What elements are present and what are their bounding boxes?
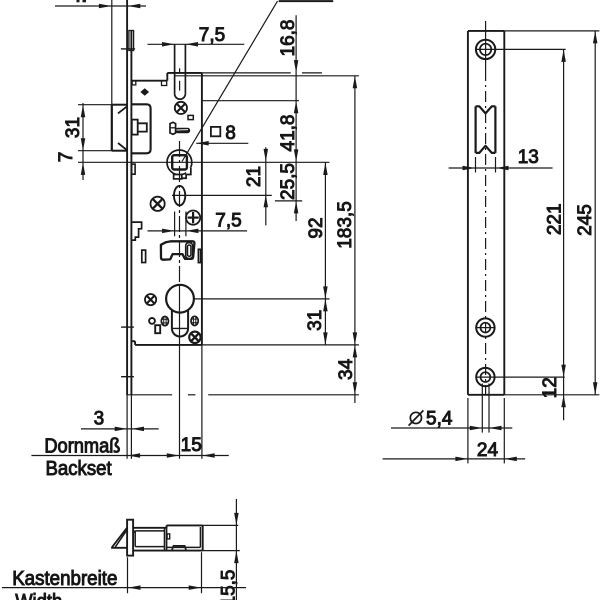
svg-text:183,5: 183,5 [335,201,356,249]
small rect hole [155,325,160,333]
svg-text:Width: Width [15,591,62,600]
latch guide slot [174,44,176,94]
svg-text:34: 34 [336,358,357,380]
lower screw hole [476,368,494,386]
middle screw hole [476,318,494,336]
screw B [151,197,165,211]
plate bottom edge [468,394,504,396]
small square hole [188,115,193,119]
faceplate screw tick lower [121,376,134,378]
case top reference extension [202,72,291,74]
case bottom reference extension [202,344,359,346]
tiny spring rect [167,534,170,539]
crosshatched oval left [161,317,168,326]
callout underline (cut off at top) [279,0,334,2]
faceplate screw tick top [121,48,135,50]
hook slot ring [186,243,193,259]
dimension 15,5 [235,499,237,600]
plate right edge [503,31,505,395]
svg-text:12: 12 [540,377,561,398]
inner wall bottom [135,546,164,548]
svg-text:Kastenbreite: Kastenbreite [12,568,117,590]
dimension chain 16,8 / 41,8 / 25,5 [295,15,297,221]
diamond marker [140,88,149,95]
svg-text:21: 21 [244,166,265,187]
diameter symbol [410,412,421,423]
svg-text:Dornmaß: Dornmaß [44,435,120,457]
screw D [145,294,156,305]
dimension 7,5 upper [148,43,245,45]
dimension 21 line [265,147,267,225]
dimension 7,5 lower extensions [174,212,176,237]
svg-text:245: 245 [575,204,596,236]
case bottom edge [135,344,202,346]
dimension 7,5 lower [148,230,248,232]
svg-text:7,5: 7,5 [215,211,241,232]
square-8 label [211,127,220,136]
svg-text:7: 7 [56,152,77,163]
main vertical centerline [179,141,181,286]
latch tip bevel [112,528,127,548]
svg-text:41,8: 41,8 [278,115,299,152]
latch top reference [78,104,112,106]
svg-text:31: 31 [63,117,84,138]
case right extension below [201,345,203,459]
follower axis reference [78,161,330,163]
Dornmass dimension line [31,455,228,457]
case right edge [201,73,203,345]
faceplate back edge [130,31,132,396]
small rect on faceplate back [132,164,136,174]
case top step [166,73,168,81]
oval hole [174,186,185,206]
faceplate back top detail [129,31,134,51]
cylinder profile sides [171,310,173,329]
dimension 3 [81,428,159,430]
svg-text:5,4: 5,4 [426,409,453,430]
svg-text:8: 8 [225,123,236,144]
hook cam plate [161,241,195,259]
follower [167,150,192,175]
latch seat reference line [175,75,359,77]
bolt symbol [170,122,176,134]
svg-text:31: 31 [305,310,326,331]
svg-text:15: 15 [181,435,202,456]
case top edges [133,527,167,529]
reference for 25,5 [275,200,302,202]
inner wall top [133,531,164,534]
svg-text:Backset: Backset [46,458,113,480]
dimension 183,5 / 34 line [354,76,356,403]
cylinder hole circle [166,285,194,313]
latch bottom reference [78,150,112,152]
crosshatched oval right [191,316,198,325]
faceplate edge-on [127,520,133,556]
tab bump [172,546,186,551]
faceplate extension lines below [126,395,128,459]
top screw hole [476,40,495,59]
faceplate front edge [126,0,128,395]
screw C [186,211,200,225]
dimension 92 / 31 line [324,163,326,345]
cylinder axis reference [194,298,330,300]
case right edge (section) [202,525,204,550]
svg-text:13: 13 [518,147,539,168]
case top notch square B [162,81,167,86]
faceplate screw tick middle [121,326,134,328]
divider double wall [164,528,166,551]
screw A [175,102,187,114]
case top notch square A [132,81,136,85]
svg-text:221: 221 [544,203,565,235]
small rect left [142,250,146,262]
oval axis reference [172,194,272,196]
dimension 24 extensions [467,398,469,463]
right inner wall [199,527,201,547]
bottom reference line segments [127,394,172,396]
latch tip extension line [111,0,113,105]
slot bottom reference extension [202,100,299,102]
plate left edge [467,31,469,395]
slot centerline dashes [179,68,181,72]
case bottom edge (section) [133,550,203,552]
case top edge left (lower level) [132,80,168,82]
Kastenbreite extensions [127,557,129,593]
case top edge [167,72,202,74]
top cut-off digit stubs [77,0,80,2]
svg-text:15,5: 15,5 [218,570,239,600]
12 reference from lower screw [476,376,565,378]
plate centerline [485,21,487,70]
follower square hole [172,155,187,169]
dimension 245 line [594,31,596,395]
svg-text:92: 92 [306,217,327,238]
roller catch [475,106,477,153]
svg-text:16,8: 16,8 [278,20,299,57]
svg-text:25,5: 25,5 [278,163,299,200]
small rect at case right [198,249,200,262]
Kastenbreite dimension line [2,587,246,589]
svg-text:7,5: 7,5 [199,25,225,46]
right compartment inner bottom [167,546,201,548]
diameter 5,4 dimension [391,427,512,429]
dimension 221 / 12 line [563,49,565,420]
screw E [189,332,200,343]
small pin circle [149,318,155,324]
latch bolt head [111,105,113,151]
diameter 5,4 extensions [481,384,483,433]
dimension 24 [383,458,526,460]
inner wall left [134,532,136,547]
dimension 13 [475,157,477,173]
221 reference from top screw [495,48,565,50]
top cut-off dimension line [55,5,146,7]
dimension 31 / 7 left line [82,103,84,180]
plate top edge [468,30,504,32]
svg-text:3: 3 [94,408,105,429]
case bottom step [134,341,136,345]
latch body rounded box [132,104,151,153]
svg-text:24: 24 [477,440,499,461]
staircase notch on case front [132,222,142,240]
latch spring piston [132,120,138,135]
leader line to follower square [182,1,278,161]
